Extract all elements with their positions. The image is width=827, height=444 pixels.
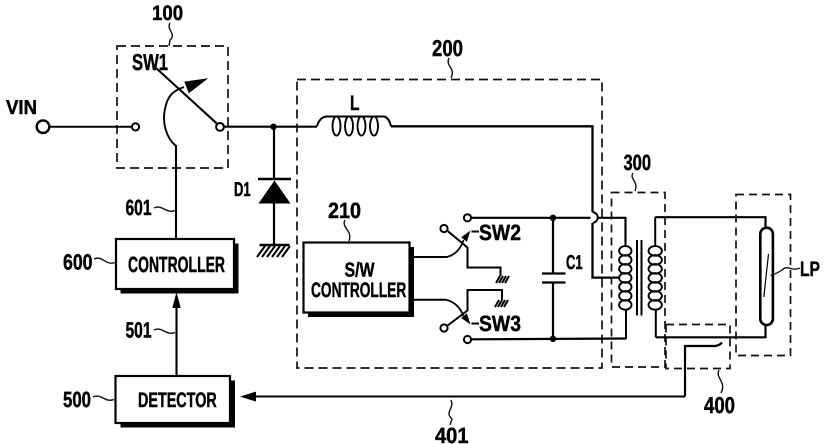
block 300 dashed box xyxy=(612,193,666,368)
wire SW1 to controller xyxy=(175,145,177,240)
block 400 dashed box xyxy=(666,325,730,369)
svg-text:200: 200 xyxy=(432,35,463,61)
leader for 600 xyxy=(94,258,115,263)
transformer T secondary winding xyxy=(649,217,662,337)
svg-text:501: 501 xyxy=(126,318,152,343)
leader for 500 xyxy=(93,396,114,400)
lamp LP dashed box xyxy=(736,195,791,356)
svg-text:300: 300 xyxy=(624,150,652,175)
leader for 401 xyxy=(449,400,452,425)
node dot top rail xyxy=(550,215,556,221)
leader for 501 xyxy=(154,329,175,333)
wire down to transformer tap xyxy=(593,223,620,278)
transformer core xyxy=(637,240,642,316)
actuation arrow of SW3 xyxy=(446,300,471,325)
wire detector to controller xyxy=(175,300,177,376)
mini ground of SW3 xyxy=(495,300,508,307)
top rail right of hop xyxy=(598,218,626,242)
leader for 210 xyxy=(344,220,350,241)
leader for LP xyxy=(771,268,801,276)
node junction dot xyxy=(270,124,276,130)
svg-text:400: 400 xyxy=(704,392,735,418)
wire secondary bottom to lamp xyxy=(656,325,766,337)
svg-text:601: 601 xyxy=(126,195,152,220)
feedback wire 401 xyxy=(256,396,685,398)
switch SW1 xyxy=(132,68,224,131)
svg-text:210: 210 xyxy=(328,198,361,223)
svg-text:SW1: SW1 xyxy=(132,49,168,75)
S/W controller U210 box xyxy=(304,243,415,318)
lamp inner line xyxy=(764,254,769,297)
leader for 100 xyxy=(169,23,172,46)
wire hop over top rail xyxy=(593,212,598,223)
switch SW3 xyxy=(440,290,502,343)
wire SW1 to node xyxy=(224,126,317,128)
block 100 dashed box xyxy=(117,46,228,168)
wire S/W controller to SW2 xyxy=(410,256,447,258)
svg-text:DETECTOR: DETECTOR xyxy=(138,389,217,412)
input terminal xyxy=(37,120,50,133)
wire S/W controller to SW3 xyxy=(410,299,446,301)
leader for 200 xyxy=(448,58,452,78)
top rail xyxy=(471,217,591,219)
wire secondary top to lamp xyxy=(655,217,765,228)
arrowhead into controller xyxy=(172,292,180,308)
node dot bottom rail xyxy=(550,336,556,342)
controller U600 box xyxy=(116,239,239,294)
svg-text:LP: LP xyxy=(800,258,820,281)
inductor L xyxy=(317,116,391,135)
leader for 400 xyxy=(718,370,723,393)
wire node to D1 xyxy=(273,127,275,179)
wire L to right corner xyxy=(391,126,593,212)
pickup wire in 400 xyxy=(685,343,722,397)
svg-text:SW2: SW2 xyxy=(479,220,521,245)
capacitor C1 xyxy=(542,218,566,339)
mini ground of SW2 xyxy=(496,276,509,283)
actuation arrow of SW2 xyxy=(447,231,471,258)
svg-text:CONTROLLER: CONTROLLER xyxy=(128,252,225,277)
leader for 601 xyxy=(154,207,175,211)
svg-text:600: 600 xyxy=(63,250,93,275)
label SW2 xyxy=(472,220,522,245)
diode D1 xyxy=(258,179,291,245)
wire VIN to SW1 xyxy=(50,126,132,128)
svg-text:100: 100 xyxy=(152,2,183,25)
ground xyxy=(257,245,290,257)
svg-text:C1: C1 xyxy=(566,252,583,274)
block 200 dashed box xyxy=(297,80,602,369)
svg-text:CONTROLLER: CONTROLLER xyxy=(311,279,406,302)
svg-text:SW3: SW3 xyxy=(479,311,521,336)
bottom rail xyxy=(471,337,626,340)
svg-text:L: L xyxy=(350,92,360,115)
svg-text:401: 401 xyxy=(435,423,469,444)
leader for 300 xyxy=(632,173,636,191)
arrowhead into detector xyxy=(240,392,256,402)
label SW3 xyxy=(472,311,522,336)
svg-text:500: 500 xyxy=(63,387,91,412)
svg-text:D1: D1 xyxy=(234,179,251,201)
svg-text:VIN: VIN xyxy=(6,97,37,119)
detector U500 box xyxy=(116,376,236,428)
switch SW2 xyxy=(440,214,500,276)
transformer T primary winding xyxy=(619,240,631,339)
lamp LP xyxy=(760,228,773,325)
actuation arrow of SW1 xyxy=(164,79,206,146)
